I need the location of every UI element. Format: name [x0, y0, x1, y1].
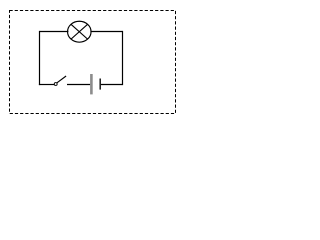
- cell (battery): [91, 74, 100, 94]
- wire left (top-left corner down to bottom-left corner): [39, 31, 41, 85]
- wire bottom-left (left corner to switch): [39, 84, 54, 86]
- wire bottom-right (cell to right corner): [101, 84, 123, 86]
- wire middle (switch to cell): [67, 84, 90, 86]
- wire top-right (lamp to right corner): [90, 31, 122, 33]
- wire right (top-right corner down to bottom-right corner): [122, 31, 124, 85]
- wire top-left (lamp to left corner): [40, 31, 69, 33]
- switch (open): [54, 76, 66, 85]
- lamp: [68, 21, 92, 42]
